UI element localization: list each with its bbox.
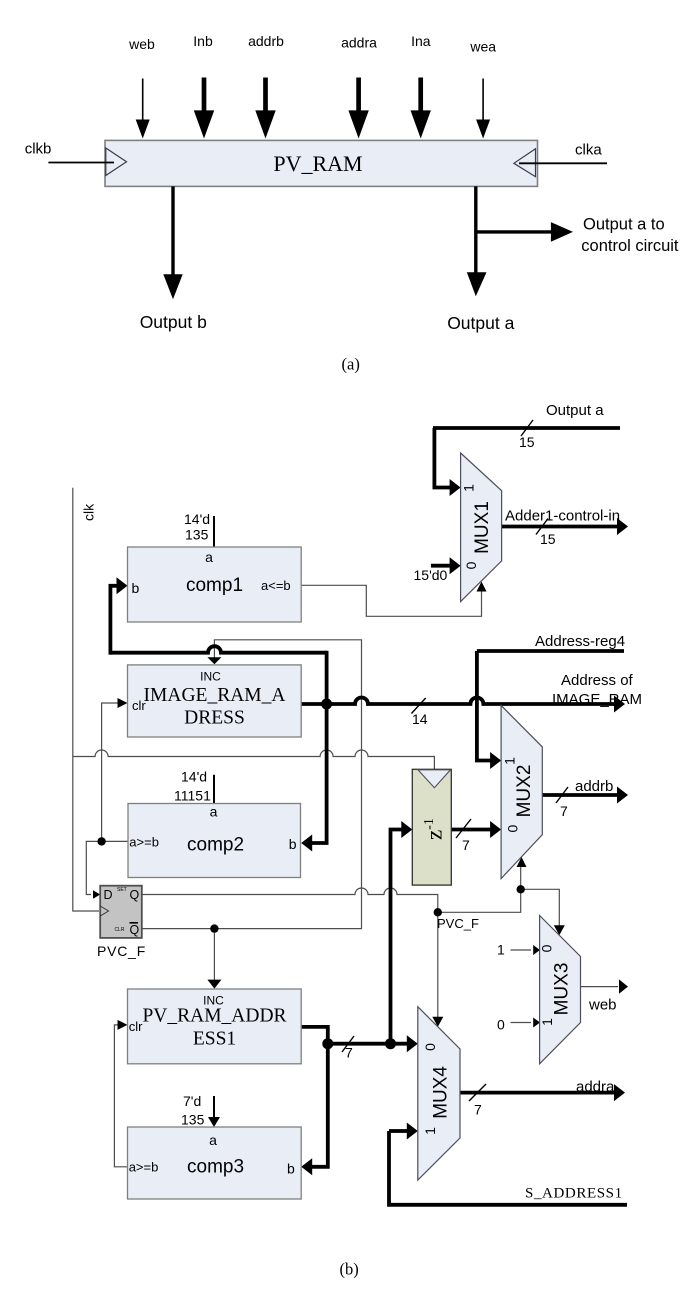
- svg-text:Inb: Inb: [193, 33, 213, 49]
- svg-text:comp2: comp2: [187, 835, 244, 856]
- svg-text:web: web: [128, 36, 155, 52]
- svg-text:7'd: 7'd: [183, 1093, 201, 1109]
- svg-text:Address-reg4: Address-reg4: [535, 633, 625, 650]
- svg-text:Address of: Address of: [561, 672, 634, 689]
- svg-text:Output a: Output a: [546, 402, 604, 419]
- svg-text:1: 1: [497, 942, 505, 958]
- svg-text:14'd: 14'd: [181, 769, 207, 785]
- svg-text:control circuit: control circuit: [581, 237, 679, 255]
- svg-text:Output b: Output b: [140, 312, 207, 332]
- svg-text:clka: clka: [575, 142, 602, 159]
- svg-text:1: 1: [501, 757, 517, 765]
- svg-text:1: 1: [461, 484, 477, 492]
- svg-text:a: a: [209, 1132, 217, 1148]
- svg-text:addra: addra: [341, 34, 377, 50]
- svg-text:clr: clr: [129, 1019, 143, 1034]
- svg-text:SET: SET: [117, 887, 127, 893]
- svg-text:0: 0: [422, 1043, 438, 1051]
- svg-text:0: 0: [539, 944, 555, 952]
- svg-text:PV_RAM: PV_RAM: [273, 151, 362, 176]
- svg-text:7: 7: [560, 803, 568, 819]
- svg-text:(b): (b): [340, 1260, 359, 1279]
- svg-text:a>=b: a>=b: [129, 835, 159, 850]
- svg-text:15: 15: [540, 531, 556, 547]
- svg-text:0: 0: [497, 1017, 505, 1033]
- svg-text:Q: Q: [130, 923, 140, 937]
- svg-text:MUX3: MUX3: [552, 963, 573, 1016]
- svg-text:DRESS: DRESS: [184, 708, 245, 729]
- svg-text:PVC_F: PVC_F: [437, 916, 479, 931]
- svg-text:14: 14: [412, 711, 428, 727]
- svg-text:0: 0: [504, 824, 520, 832]
- svg-text:7: 7: [474, 1102, 482, 1118]
- svg-text:a>=b: a>=b: [129, 1160, 159, 1175]
- svg-text:wea: wea: [469, 39, 496, 55]
- svg-text:clk: clk: [81, 503, 97, 521]
- svg-text:addrb: addrb: [248, 33, 284, 49]
- svg-text:INC: INC: [200, 670, 221, 684]
- svg-text:S_ADDRESS1: S_ADDRESS1: [525, 1186, 623, 1202]
- svg-text:15'd0: 15'd0: [414, 567, 448, 583]
- svg-text:b: b: [287, 1161, 295, 1177]
- svg-text:MUX2: MUX2: [514, 765, 535, 818]
- svg-text:135: 135: [181, 1112, 205, 1128]
- svg-text:ESS1: ESS1: [193, 1029, 236, 1050]
- svg-text:D: D: [104, 888, 113, 902]
- svg-text:addra: addra: [576, 1079, 615, 1096]
- svg-text:a<=b: a<=b: [261, 578, 291, 593]
- svg-text:135: 135: [185, 527, 209, 543]
- svg-text:IMAGE_RAM: IMAGE_RAM: [552, 691, 642, 708]
- svg-text:14'd: 14'd: [184, 511, 210, 527]
- svg-text:7: 7: [462, 837, 470, 853]
- svg-text:web: web: [588, 997, 617, 1014]
- svg-text:IMAGE_RAM_A: IMAGE_RAM_A: [144, 685, 286, 706]
- svg-text:Output a: Output a: [447, 313, 514, 333]
- svg-text:Output a to: Output a to: [583, 216, 665, 234]
- svg-text:Ina: Ina: [411, 33, 431, 49]
- svg-text:a: a: [205, 549, 213, 565]
- svg-text:0: 0: [463, 561, 479, 569]
- svg-text:1: 1: [422, 1127, 438, 1135]
- svg-text:CLR: CLR: [115, 927, 125, 933]
- svg-text:addrb: addrb: [575, 778, 613, 795]
- svg-text:comp3: comp3: [187, 1157, 244, 1178]
- svg-text:PVC_F: PVC_F: [97, 943, 146, 959]
- svg-text:comp1: comp1: [186, 575, 243, 596]
- svg-text:Adder1-control-in: Adder1-control-in: [505, 508, 620, 525]
- svg-text:PV_RAM_ADDR: PV_RAM_ADDR: [142, 1006, 286, 1027]
- svg-text:Q: Q: [130, 888, 140, 902]
- svg-text:b: b: [289, 836, 297, 852]
- svg-text:MUX4: MUX4: [431, 1066, 452, 1119]
- svg-text:7: 7: [345, 1045, 353, 1061]
- svg-text:clkb: clkb: [25, 141, 52, 158]
- svg-text:a: a: [210, 804, 218, 820]
- svg-text:11151: 11151: [174, 788, 211, 804]
- svg-text:(a): (a): [342, 355, 360, 374]
- svg-text:1: 1: [539, 1018, 555, 1026]
- svg-text:b: b: [132, 580, 140, 596]
- svg-text:15: 15: [519, 434, 535, 450]
- svg-text:MUX1: MUX1: [472, 501, 493, 554]
